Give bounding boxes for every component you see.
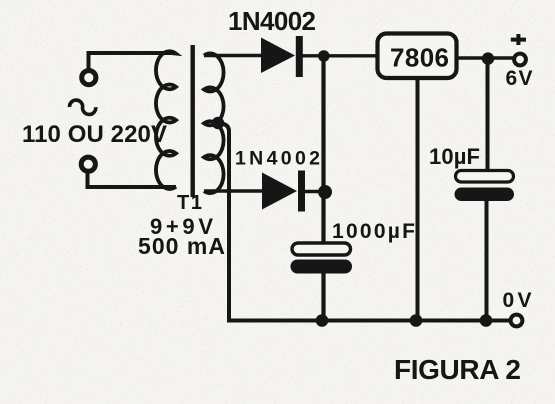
- svg-text:6V: 6V: [506, 67, 533, 90]
- AC sine symbol: [69, 100, 95, 114]
- terminal +6V output: [514, 54, 526, 66]
- terminal J1 (AC input top): [82, 71, 96, 85]
- transformer core: [191, 45, 195, 197]
- center tap node: [212, 117, 224, 129]
- wire (rectified bus down to 1000uF): [321, 56, 325, 244]
- wire (D2 to bus): [305, 190, 325, 193]
- junction node (regulator ground): [410, 314, 423, 327]
- terminal 0V output: [511, 315, 523, 327]
- wire (output bus down to 10uF): [486, 58, 490, 172]
- wire (secondary bottom to diode D2): [204, 189, 263, 192]
- wire (center tap down to ground rail): [219, 123, 510, 321]
- svg-text:FIGURA 2: FIGURA 2: [394, 354, 521, 385]
- wire (C1 to ground rail): [321, 272, 325, 321]
- wire (regulator output to +6V terminal): [456, 56, 513, 60]
- terminal J2 (AC input bottom): [81, 157, 95, 171]
- svg-text:10µF: 10µF: [429, 144, 480, 169]
- svg-text:1N4002: 1N4002: [228, 6, 316, 36]
- plus sign: [511, 34, 526, 45]
- wire (D1 to regulator): [302, 54, 378, 57]
- wire (input top to primary): [89, 53, 173, 69]
- svg-text:110 OU 220V: 110 OU 220V: [22, 121, 167, 148]
- diode D1: [261, 36, 303, 77]
- regulator U1 7806: [378, 34, 457, 79]
- wire (10uF to ground rail): [485, 200, 489, 321]
- transformer T1 secondary winding: [204, 53, 224, 193]
- svg-text:7806: 7806: [390, 43, 449, 73]
- junction node (10uF ground): [480, 314, 493, 327]
- junction node (output bus): [482, 52, 494, 64]
- transformer T1 primary winding: [156, 51, 176, 189]
- diode D2: [262, 171, 305, 212]
- capacitor C1 1000uF: [291, 243, 353, 274]
- svg-text:0V: 0V: [503, 289, 532, 312]
- junction node (D2 output): [318, 185, 332, 199]
- wire (regulator ground pin): [416, 78, 420, 321]
- wire (secondary top to diode D1): [204, 54, 262, 57]
- svg-text:500 mA: 500 mA: [138, 233, 225, 259]
- junction node (C1 ground): [316, 314, 329, 327]
- wire (input bottom to primary): [88, 174, 177, 188]
- junction node (D1 output): [318, 50, 330, 62]
- capacitor C2 10uF: [455, 171, 515, 202]
